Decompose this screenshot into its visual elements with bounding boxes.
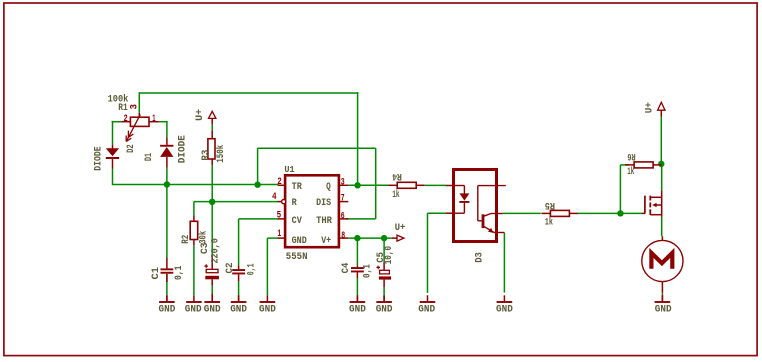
- svg-text:3: 3: [129, 104, 140, 110]
- svg-text:D1: D1: [144, 153, 155, 161]
- svg-text:R6: R6: [627, 150, 635, 161]
- svg-text:R4: R4: [392, 170, 402, 181]
- svg-text:THR: THR: [316, 216, 332, 227]
- svg-text:Q: Q: [326, 182, 331, 193]
- svg-text:GND: GND: [376, 305, 393, 316]
- svg-text:D3: D3: [475, 252, 486, 263]
- svg-text:GND: GND: [655, 305, 672, 316]
- svg-text:R: R: [292, 198, 297, 209]
- svg-text:CV: CV: [292, 216, 302, 227]
- svg-text:GND: GND: [418, 305, 435, 316]
- svg-text:GND: GND: [159, 305, 176, 316]
- svg-text:GND: GND: [259, 305, 276, 316]
- svg-text:D2: D2: [126, 144, 137, 153]
- svg-text:DIODE: DIODE: [94, 146, 105, 170]
- svg-text:TR: TR: [292, 182, 302, 193]
- svg-text:U+: U+: [395, 223, 406, 234]
- svg-text:2: 2: [124, 114, 128, 125]
- svg-text:2: 2: [277, 177, 282, 188]
- svg-text:DIS: DIS: [316, 198, 331, 209]
- svg-text:DIODE: DIODE: [177, 135, 188, 163]
- svg-text:V+: V+: [321, 236, 331, 247]
- svg-text:C1: C1: [151, 267, 162, 280]
- svg-text:GND: GND: [496, 305, 513, 316]
- svg-text:GND: GND: [349, 305, 366, 316]
- svg-text:10,0: 10,0: [384, 246, 395, 264]
- svg-text:555N: 555N: [286, 252, 308, 263]
- svg-text:6: 6: [341, 212, 345, 223]
- svg-text:7: 7: [341, 194, 345, 205]
- svg-text:220,0: 220,0: [211, 238, 222, 263]
- svg-text:R5: R5: [545, 199, 555, 210]
- svg-text:C2: C2: [225, 263, 236, 274]
- svg-text:R2: R2: [181, 235, 192, 244]
- svg-text:0,1: 0,1: [247, 264, 258, 276]
- svg-text:0,1: 0,1: [362, 264, 373, 278]
- svg-text:GND: GND: [204, 305, 221, 316]
- svg-text:1k: 1k: [392, 189, 399, 201]
- svg-text:U+: U+: [195, 109, 206, 121]
- svg-text:1k: 1k: [545, 217, 553, 229]
- svg-text:U1: U1: [284, 164, 294, 175]
- svg-text:4: 4: [272, 192, 277, 203]
- svg-text:3: 3: [341, 178, 345, 189]
- svg-text:U+: U+: [645, 102, 656, 113]
- svg-text:0,1: 0,1: [174, 266, 185, 281]
- svg-text:GND: GND: [292, 236, 307, 247]
- svg-text:5: 5: [277, 211, 282, 222]
- svg-text:C4: C4: [341, 263, 352, 274]
- svg-text:1: 1: [152, 114, 155, 125]
- svg-text:GND: GND: [185, 305, 202, 316]
- svg-text:R1: R1: [118, 103, 128, 114]
- svg-text:150k: 150k: [215, 145, 227, 163]
- svg-text:R3: R3: [201, 150, 212, 161]
- svg-text:1: 1: [277, 229, 281, 240]
- svg-text:GND: GND: [230, 305, 247, 316]
- svg-text:30k: 30k: [198, 231, 210, 244]
- svg-text:1k: 1k: [627, 166, 634, 178]
- svg-text:8: 8: [341, 231, 345, 242]
